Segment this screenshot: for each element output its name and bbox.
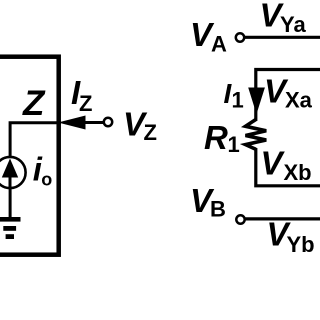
svg-text:R: R (204, 119, 228, 156)
svg-text:Xb: Xb (284, 160, 312, 185)
current source U1 circle (0, 157, 26, 188)
resistor R1 zigzag (246, 120, 267, 150)
svg-text:Yb: Yb (287, 232, 315, 257)
svg-text:B: B (210, 197, 226, 222)
svg-text:A: A (211, 32, 227, 57)
terminal B circle (236, 215, 244, 223)
arrow I_1 (pointing down on branch) (248, 88, 265, 115)
wire V_Yb (terminal B to right edge) (246, 217, 320, 220)
svg-text:Z: Z (79, 91, 92, 116)
svg-text:1: 1 (232, 88, 244, 113)
two-port network box (0, 57, 59, 255)
svg-text:1: 1 (228, 132, 240, 157)
svg-text:Z: Z (144, 120, 157, 145)
wire: X-loop top horizontal with corner down to branch (256, 70, 320, 122)
terminal Z circle (104, 118, 112, 126)
svg-text:Xa: Xa (285, 88, 313, 113)
svg-text:V: V (261, 145, 286, 182)
wire V_Ya (terminal A to right edge) (245, 36, 320, 39)
current source arrow (up) (9, 177, 12, 188)
svg-text:o: o (41, 170, 52, 190)
wire: node Z horizontal and down to current source (10, 123, 61, 157)
terminal A circle (236, 33, 244, 41)
ground (0, 217, 21, 222)
svg-text:Ya: Ya (280, 12, 306, 37)
arrow I_Z (pointing left into box) (58, 116, 86, 130)
svg-text:Z: Z (22, 84, 46, 123)
wire: current source to ground (9, 188, 12, 219)
wire: resistor bottom to X-loop bottom horizontal (256, 148, 320, 186)
wire: I_Z arrow to terminal Z (85, 121, 103, 124)
